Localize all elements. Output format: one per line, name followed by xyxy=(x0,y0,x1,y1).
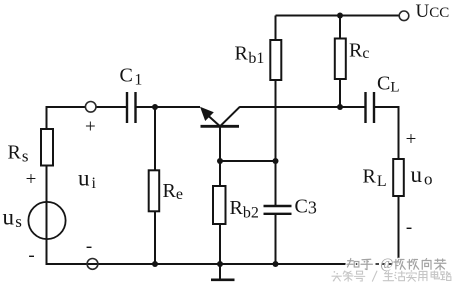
svg-text:+: + xyxy=(26,169,37,190)
svg-text:-: - xyxy=(86,236,92,257)
svg-text:@: @ xyxy=(380,256,393,272)
svg-text:+: + xyxy=(85,117,96,138)
svg-text:-: - xyxy=(28,245,34,266)
svg-text:-: - xyxy=(406,217,412,238)
svg-text:+: + xyxy=(406,129,417,150)
svg-text:C3: C3 xyxy=(295,196,317,218)
svg-text:UCC: UCC xyxy=(416,1,450,22)
